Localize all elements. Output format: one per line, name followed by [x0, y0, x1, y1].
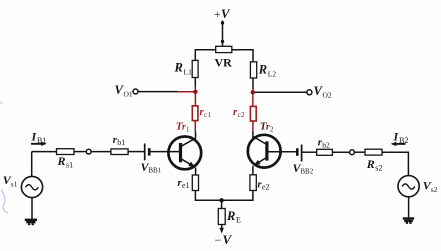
svg-text:R: R	[57, 154, 66, 168]
resistor R_s2	[365, 149, 382, 155]
wire r_b2 to node D	[332, 151, 349, 153]
wire V_s2 to ground	[408, 197, 410, 218]
wire VR right to R_L2	[232, 50, 253, 62]
wire r_b1 to battery V_BB1	[128, 151, 144, 153]
svg-text:s2: s2	[375, 164, 382, 173]
ground	[25, 219, 37, 226]
wire base rail left	[32, 151, 57, 153]
svg-text:s2: s2	[431, 185, 438, 194]
resistor r_b1	[111, 149, 128, 155]
svg-text:V: V	[223, 232, 233, 247]
svg-text:L2: L2	[268, 70, 277, 79]
resistor R_s1	[57, 149, 75, 155]
node A junction	[193, 90, 197, 94]
resistor r_c2	[250, 106, 256, 121]
resistor R_L2	[250, 62, 256, 78]
svg-text:BB2: BB2	[300, 168, 313, 176]
svg-text:R: R	[174, 61, 183, 75]
node B junction	[251, 90, 255, 94]
blue speck	[0, 102, 3, 105]
node +V supply label	[214, 7, 231, 21]
svg-text:V: V	[221, 7, 231, 21]
svg-text:VR: VR	[215, 55, 233, 69]
svg-text:O1: O1	[124, 90, 133, 99]
node wiper dot upper	[221, 21, 224, 24]
wire R_L1 to node A	[194, 78, 196, 88]
svg-text:R: R	[258, 63, 267, 77]
wire R_E to -V	[221, 225, 223, 230]
wire node D to R_s2	[354, 151, 365, 153]
svg-text:c1: c1	[204, 110, 211, 119]
svg-text:2: 2	[270, 125, 274, 133]
wire node A to r_c1	[194, 92, 196, 106]
svg-text:b2: b2	[322, 140, 330, 149]
wire VR left to R_L1	[195, 50, 215, 61]
wire node B to r_c2	[252, 94, 254, 106]
wire r_c2 to T2 collector	[252, 121, 254, 132]
svg-text:+: +	[214, 9, 221, 21]
resistor r_b2	[317, 149, 333, 155]
node C terminal	[86, 149, 91, 154]
current I_B1 label and arrow	[31, 130, 47, 147]
svg-text:b1: b1	[117, 138, 125, 147]
wire R_s2 to V_s2	[382, 152, 408, 176]
resistor R_E	[218, 209, 225, 225]
resistor r_e2	[250, 175, 256, 191]
svg-text:s1: s1	[66, 161, 73, 170]
blue pencil mark	[1, 190, 8, 213]
wire T2 emitter to r_e2	[252, 166, 254, 175]
svg-text:BB1: BB1	[148, 167, 161, 175]
svg-text:O2: O2	[323, 91, 332, 100]
svg-text:c2: c2	[238, 110, 245, 119]
source V_s1	[3, 152, 43, 198]
wire battery to r_b2	[302, 151, 317, 153]
node E junction	[219, 198, 223, 202]
svg-text:R: R	[366, 157, 375, 171]
wire node B to V_O2	[255, 91, 307, 93]
svg-text:E: E	[236, 215, 241, 224]
source V_s2	[398, 176, 438, 197]
resistor R_L1	[192, 60, 198, 77]
svg-text:L1: L1	[184, 68, 193, 77]
potentiometer VR	[216, 46, 232, 52]
battery V_BB2	[293, 145, 314, 176]
ground 2	[403, 217, 414, 224]
node D terminal	[350, 150, 355, 155]
wire R_s1 to node C	[74, 151, 86, 153]
svg-text:1: 1	[186, 125, 190, 133]
transistor T2	[248, 120, 281, 167]
svg-text:s1: s1	[11, 179, 18, 188]
node -V supply label	[215, 232, 233, 247]
wire V_s1 to ground	[31, 198, 33, 219]
node V_O1 terminal	[133, 89, 138, 94]
wire node C to r_b1	[91, 151, 111, 153]
node V_O2 terminal	[307, 90, 312, 95]
wire R_L2 to node B	[252, 78, 254, 89]
wire T1 emitter to r_e1	[195, 168, 197, 176]
wire r_c1 to T1 collector	[194, 121, 196, 132]
svg-text:e2: e2	[262, 182, 270, 191]
current I_B2 label and arrow	[391, 129, 409, 146]
svg-text:−: −	[215, 233, 222, 247]
battery V_BB1	[141, 144, 162, 175]
wire emitter rail	[195, 191, 253, 201]
node wiper dot lower	[221, 40, 224, 43]
wire +V stem	[222, 21, 224, 47]
resistor r_e1	[192, 175, 198, 191]
svg-text:R: R	[226, 209, 235, 223]
wire node E to R_E	[221, 200, 223, 208]
svg-text:e1: e1	[182, 181, 190, 190]
transistor T1	[168, 120, 201, 169]
wire V_O1 to node A	[138, 91, 177, 93]
resistor r_c1	[192, 106, 198, 121]
wire base rail right	[269, 151, 297, 153]
wire battery to T1 base	[151, 151, 180, 153]
